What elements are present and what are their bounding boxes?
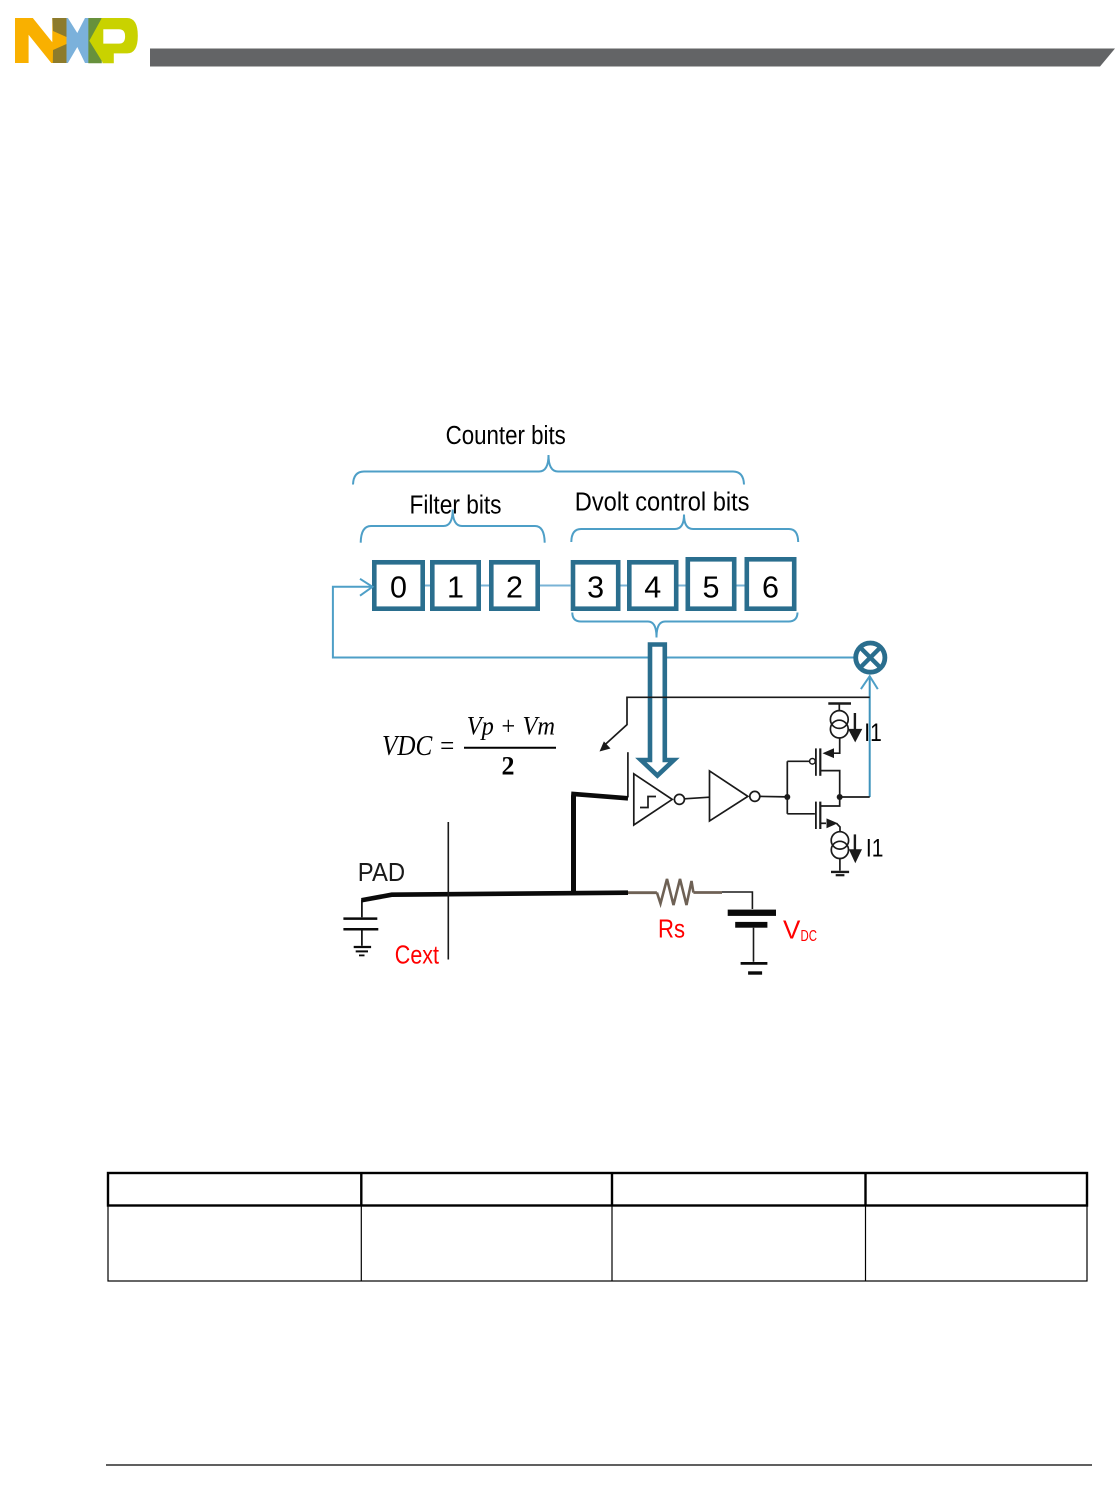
wire between bit0 and bit1 [425, 585, 430, 587]
wire from output node up to multiplier [869, 676, 871, 797]
brace under dvolt bits [572, 613, 797, 638]
svg-text:V: V [783, 915, 801, 945]
ground below current source [831, 859, 849, 876]
label VDC [783, 915, 817, 946]
junction dot output node [837, 794, 843, 800]
register bit 2 [491, 562, 537, 608]
thick PAD net wire [362, 794, 629, 901]
ground at battery [741, 963, 768, 973]
register bit 3 [573, 562, 618, 608]
register bit 4 [629, 562, 676, 608]
footer rule [106, 1464, 1092, 1466]
formula VDC = (Vp+Vm)/2 [382, 712, 555, 781]
arrowhead up into multiplier [861, 676, 878, 689]
svg-text:6: 6 [762, 571, 779, 605]
junction dot gate node [784, 794, 790, 800]
svg-text:I1: I1 [864, 719, 882, 747]
wire between bit1 and bit2 [481, 585, 489, 587]
capacitor at PAD [343, 900, 378, 946]
battery VDC [728, 910, 776, 962]
brace counter bits [353, 455, 744, 485]
svg-text:2: 2 [502, 752, 515, 781]
svg-text:I1: I1 [866, 835, 884, 863]
table [108, 1173, 1087, 1281]
svg-text:4: 4 [644, 571, 661, 605]
ground at PAD [354, 947, 371, 955]
input stub line at schmitt trigger [627, 752, 629, 797]
transistor Q2 NMOS [787, 797, 840, 832]
wire U1 to U2 [684, 797, 709, 799]
resistor Rs [628, 879, 722, 905]
register bit 1 [432, 562, 478, 608]
svg-text:Rs: Rs [658, 914, 685, 944]
svg-text:Cext: Cext [395, 940, 440, 970]
svg-text:PAD: PAD [358, 859, 405, 887]
multiplier node (circled X) [856, 643, 885, 672]
schmitt trigger U1 [634, 774, 685, 825]
inverter U2 [710, 771, 760, 821]
NXP logo [15, 18, 138, 63]
feedback wire from multiplier to bit0 [333, 587, 854, 658]
svg-text:Vp + Vm: Vp + Vm [467, 712, 555, 741]
wire resistor to battery [722, 892, 752, 909]
register bit 0 [374, 562, 422, 608]
arrowhead of black feedback wire [600, 741, 611, 751]
register bit 6 [747, 559, 794, 608]
brace dvolt control bits [571, 515, 798, 543]
svg-text:DC: DC [801, 928, 818, 945]
wire between bit2 and bit3 [540, 585, 571, 587]
fraction bar [464, 747, 556, 749]
svg-text:Filter bits: Filter bits [410, 490, 502, 520]
wire between bit4 and bit5 [679, 585, 686, 587]
brace filter bits [361, 510, 545, 543]
gate bus vertical wire [786, 761, 788, 814]
NMOS source arrow [827, 818, 838, 828]
big down arrow [641, 645, 674, 776]
svg-text:2: 2 [506, 571, 523, 605]
svg-text:Counter bits: Counter bits [446, 420, 566, 450]
current arrow I1 top [848, 729, 862, 743]
header bar [150, 49, 1115, 67]
supply rail top [828, 704, 851, 711]
current source I1 top [830, 711, 855, 738]
transistor Q1 PMOS [787, 738, 839, 797]
wire output node to right [840, 796, 870, 798]
arrowhead into bit 0 [360, 579, 373, 596]
current arrow I1 bottom [849, 849, 862, 863]
svg-text:Dvolt control bits: Dvolt control bits [575, 486, 750, 516]
svg-text:5: 5 [703, 571, 720, 605]
svg-text:3: 3 [587, 571, 604, 605]
wire between bit3 and bit4 [621, 585, 628, 587]
current source I1 bottom [831, 831, 855, 859]
svg-text:VDC =: VDC = [382, 731, 456, 762]
black feedback wire with arrow [603, 697, 870, 746]
PMOS source arrow [823, 748, 835, 758]
svg-text:0: 0 [390, 571, 407, 605]
svg-text:1: 1 [447, 571, 464, 605]
Cext boundary line [447, 822, 449, 960]
wire between bit5 and bit6 [737, 585, 745, 587]
wire U2 to gate node [760, 795, 788, 798]
register bit 5 [688, 559, 734, 608]
